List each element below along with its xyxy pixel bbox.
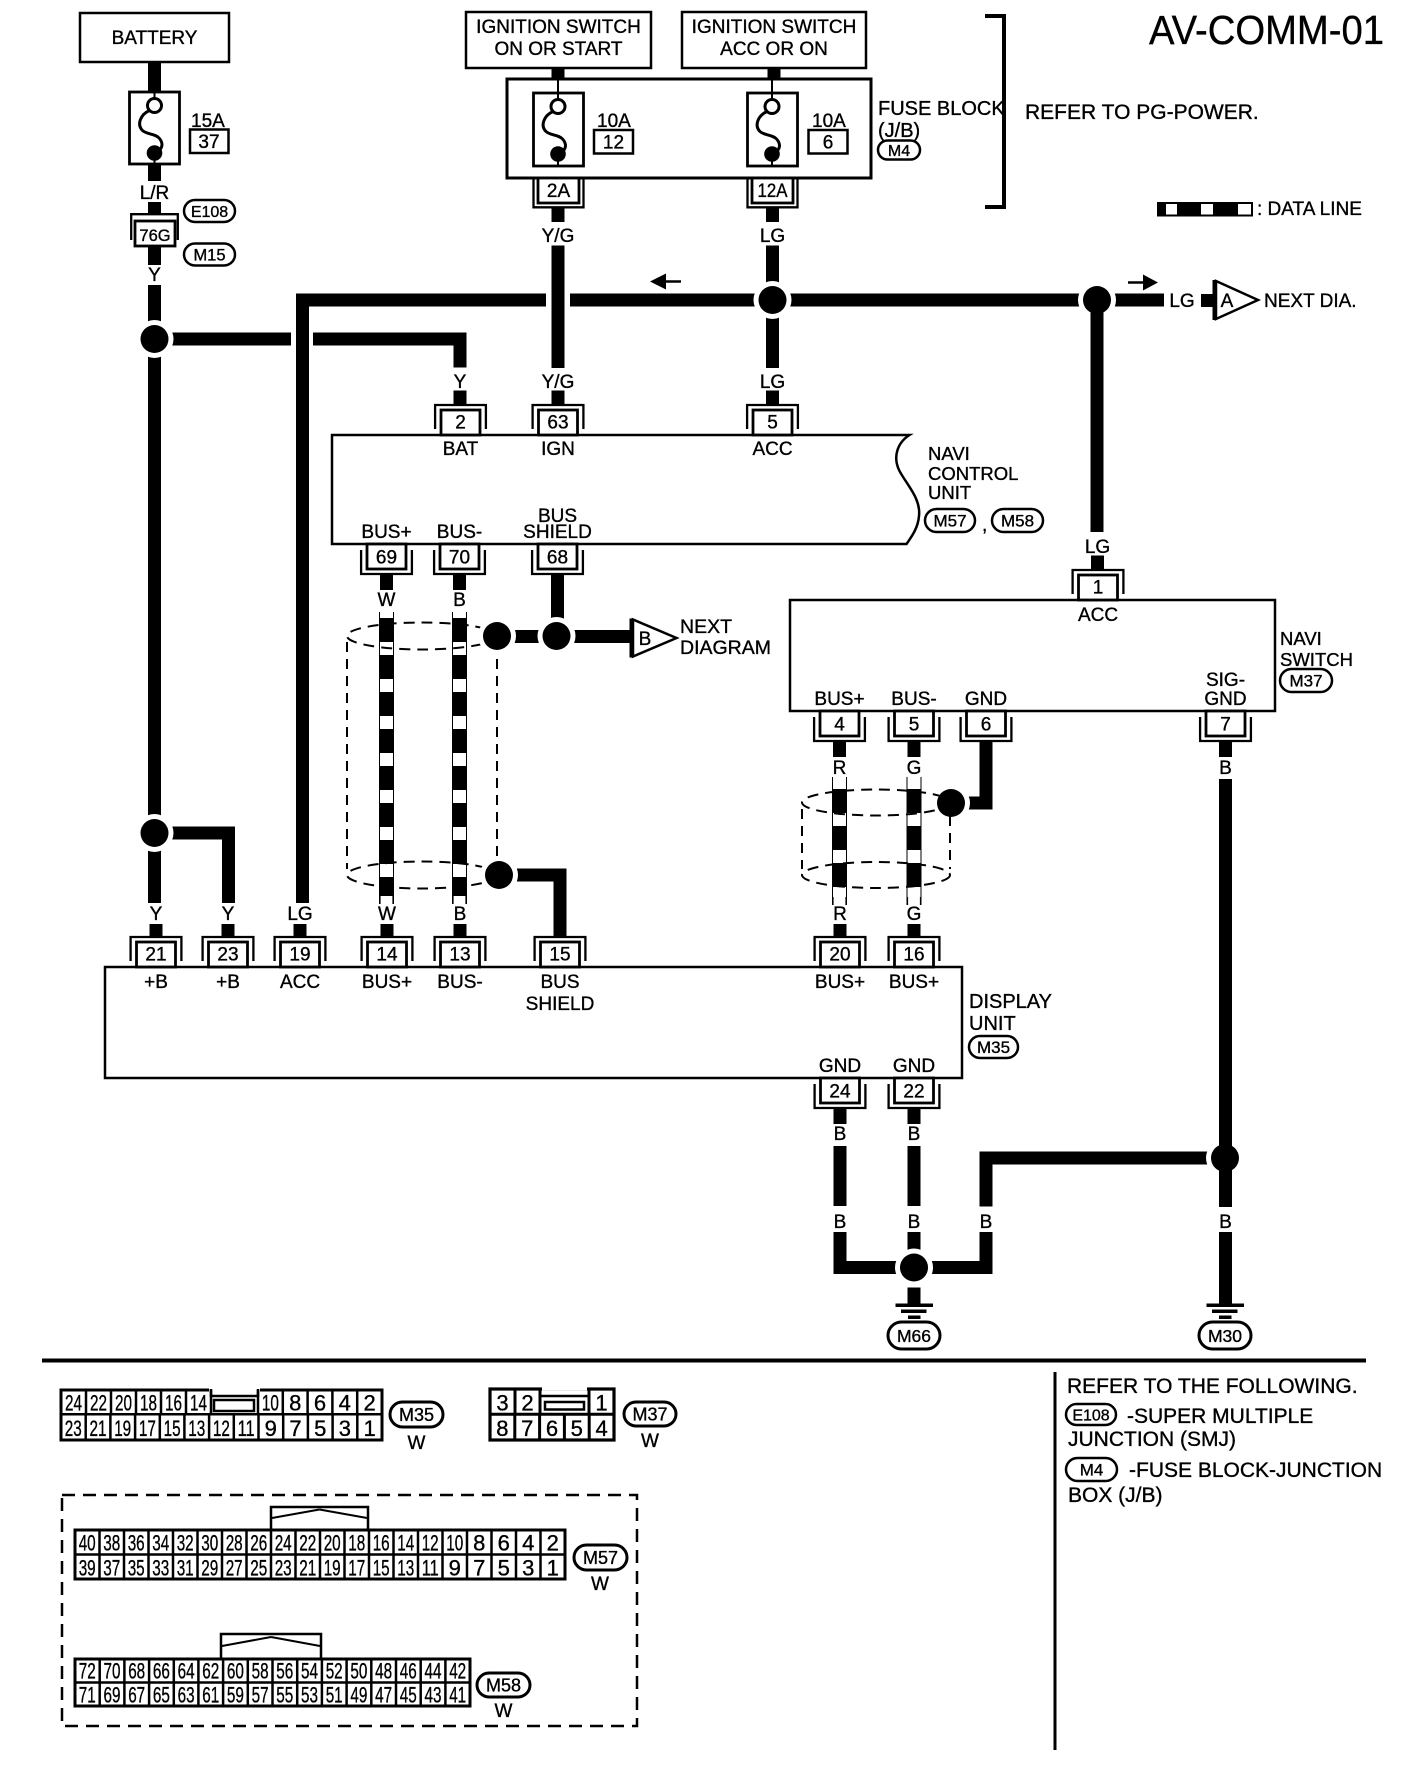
svg-text:: DATA LINE: : DATA LINE (1257, 199, 1362, 220)
wire label B pin22 lower (908, 1212, 921, 1233)
svg-text:32: 32 (177, 1531, 194, 1556)
svg-text:M4: M4 (888, 143, 910, 160)
svg-text:5: 5 (909, 715, 920, 736)
svg-text:2: 2 (455, 413, 466, 434)
svg-text:30: 30 (201, 1531, 218, 1556)
junction dot rail at 12A (754, 281, 792, 319)
connector face M57 pinout (75, 1507, 565, 1581)
svg-text:DIAGRAM: DIAGRAM (680, 637, 771, 659)
svg-text:10: 10 (262, 1391, 279, 1416)
junction dot rail right (1078, 281, 1116, 319)
svg-text:50: 50 (350, 1659, 367, 1684)
ground symbol M66 (896, 1304, 934, 1320)
connector ref M15 oval (184, 244, 235, 266)
svg-text:1: 1 (595, 1391, 607, 1416)
svg-text:M58: M58 (486, 1675, 521, 1695)
svg-text:55: 55 (276, 1683, 293, 1708)
svg-text:1: 1 (547, 1556, 559, 1581)
wire rail LG right segment (570, 294, 1164, 307)
wire LG from 12A (766, 207, 779, 222)
svg-text:B: B (908, 1212, 921, 1233)
label NAVI SWITCH (1280, 628, 1353, 670)
pin 69 BUS+ (361, 544, 412, 574)
svg-text:17: 17 (139, 1416, 156, 1441)
svg-text:69: 69 (104, 1683, 121, 1708)
svg-text:21: 21 (299, 1556, 316, 1581)
svg-text:42: 42 (449, 1659, 466, 1684)
svg-text:15: 15 (164, 1416, 181, 1441)
connector face M58 pinout (75, 1634, 470, 1708)
svg-text:22: 22 (90, 1391, 107, 1416)
svg-text:8: 8 (289, 1391, 301, 1416)
data wire G navi-to-display (907, 777, 920, 905)
svg-text:4: 4 (339, 1391, 351, 1416)
arrow left on rail (650, 274, 681, 290)
svg-text:23: 23 (65, 1416, 82, 1441)
label BUS+ pin14 (362, 972, 412, 993)
svg-text:47: 47 (375, 1683, 392, 1708)
svg-text:W: W (378, 590, 396, 611)
wire label Y at pin 2 (454, 372, 467, 393)
label SIG-GND pin7 (1204, 670, 1246, 710)
fuse number box 37 (190, 130, 229, 154)
label BAT (443, 439, 479, 460)
svg-text:24: 24 (275, 1531, 292, 1556)
svg-text:46: 46 (400, 1659, 417, 1684)
svg-text:BAT: BAT (443, 439, 479, 460)
svg-text:5: 5 (767, 413, 778, 434)
note REFER TO THE FOLLOWING (1067, 1375, 1358, 1398)
comma separator (982, 515, 987, 536)
svg-text:Y: Y (454, 372, 467, 393)
junction dot sig-gnd (1206, 1139, 1244, 1177)
svg-text:JUNCTION (SMJ): JUNCTION (SMJ) (1068, 1428, 1236, 1451)
data wire W navi-to-display (380, 612, 393, 904)
label BUS- pin13 (437, 972, 482, 993)
junction dot shield bottom (480, 856, 518, 894)
wire ignition2 to fuse block (768, 68, 781, 79)
svg-text:BUS+: BUS+ (815, 972, 865, 993)
svg-text:26: 26 (250, 1531, 267, 1556)
wire Y/G vertical (552, 246, 565, 369)
svg-text:BUS-: BUS- (437, 972, 482, 993)
svg-text:16: 16 (903, 945, 924, 966)
wire ignition1 to fuse block (552, 68, 565, 79)
svg-text:9: 9 (265, 1416, 277, 1441)
wire branch to pin 2 BAT (161, 333, 467, 368)
connector face ref M58 oval (477, 1673, 530, 1697)
svg-text:49: 49 (350, 1683, 367, 1708)
label NEXT DIAGRAM (680, 616, 771, 659)
svg-text:58: 58 (252, 1659, 269, 1684)
svg-text:19: 19 (289, 945, 310, 966)
svg-text:GND: GND (819, 1056, 861, 1077)
svg-text:67: 67 (128, 1683, 145, 1708)
svg-text:43: 43 (425, 1683, 442, 1708)
svg-text:NEXT: NEXT (680, 616, 732, 638)
svg-text:64: 64 (178, 1659, 195, 1684)
label BUS SHIELD pin68 (523, 506, 592, 543)
svg-text:22: 22 (299, 1531, 316, 1556)
svg-text:3: 3 (496, 1391, 508, 1416)
svg-text:48: 48 (375, 1659, 392, 1684)
svg-text:IGNITION SWITCH: IGNITION SWITCH (692, 17, 857, 38)
svg-text:NAVI: NAVI (928, 443, 970, 464)
svg-text:LG: LG (760, 372, 785, 393)
svg-text:M4: M4 (1080, 1461, 1104, 1480)
connector 12A (748, 178, 798, 207)
navi control unit box (332, 435, 919, 544)
wire stub display pin x914 (908, 924, 921, 937)
svg-text:REFER TO PG-POWER.: REFER TO PG-POWER. (1025, 101, 1259, 124)
svg-text:Y: Y (150, 904, 163, 925)
legend data line symbol (1158, 203, 1252, 216)
svg-text:16: 16 (165, 1391, 182, 1416)
svg-text:19: 19 (324, 1556, 341, 1581)
wire label Y (148, 265, 161, 286)
pin 5 BUS- navi switch (889, 711, 940, 741)
wire stub pin 63 (552, 391, 565, 405)
svg-text:ACC: ACC (1078, 605, 1118, 626)
off-page connector A next dia (1213, 280, 1259, 320)
svg-text:2A: 2A (547, 181, 571, 202)
wire stub pin 4 (833, 741, 846, 757)
svg-text:M37: M37 (1289, 672, 1322, 691)
svg-text:SHIELD: SHIELD (523, 522, 592, 543)
wire stub display pin x300 (294, 924, 307, 937)
svg-text:BUS-: BUS- (437, 522, 482, 543)
svg-text:ACC: ACC (280, 972, 320, 993)
pin 24 GND (815, 1078, 866, 1108)
pin 4 BUS+ navi switch (814, 711, 865, 741)
svg-text:Y/G: Y/G (542, 226, 575, 247)
label BUS SHIELD pin15 (526, 972, 595, 1015)
svg-text:20: 20 (115, 1391, 132, 1416)
svg-text:20: 20 (829, 945, 850, 966)
svg-text:24: 24 (65, 1391, 82, 1416)
svg-text:R: R (833, 904, 847, 925)
svg-text:B: B (834, 1124, 847, 1145)
wire label G upper (907, 758, 922, 779)
svg-text:2: 2 (363, 1391, 375, 1416)
svg-text:76G: 76G (139, 227, 170, 245)
svg-text:W: W (641, 1431, 659, 1452)
svg-text:M15: M15 (193, 246, 225, 264)
svg-text:12: 12 (213, 1416, 230, 1441)
wire label B at display pin x460 (454, 904, 467, 925)
wire label W upper (378, 590, 396, 611)
label BUS+ pin69 (361, 522, 411, 543)
svg-text:GND: GND (1204, 689, 1246, 710)
svg-text:M30: M30 (1208, 1326, 1242, 1346)
wire label Y at display pin x228 (222, 904, 235, 925)
svg-text:M57: M57 (583, 1548, 618, 1568)
svg-text:54: 54 (301, 1659, 318, 1684)
label FUSE BLOCK (J/B) (878, 98, 1005, 142)
svg-text:M58: M58 (1001, 512, 1034, 531)
svg-text:1: 1 (1093, 578, 1104, 599)
svg-text:6: 6 (981, 715, 992, 736)
shield sheath left pair (347, 623, 497, 889)
wire LG down to navi switch (1091, 307, 1104, 533)
pin 14 BUS+ display (362, 937, 413, 967)
label BUS- pin5 (891, 689, 936, 710)
label +B pin21 (144, 972, 168, 993)
svg-text:W: W (408, 1433, 426, 1454)
pin 20 BUS+ display (815, 937, 866, 967)
wire label B pin22 (908, 1124, 921, 1145)
wire label LG at pin 5 (760, 372, 785, 393)
wire label Y/G upper (542, 226, 575, 247)
svg-text:6: 6 (314, 1391, 326, 1416)
wire B pin22 down (908, 1146, 921, 1268)
svg-text:W: W (591, 1574, 609, 1595)
wire stub below 76G (148, 246, 161, 265)
svg-text:7: 7 (521, 1416, 533, 1441)
wire LG vertical to pin 5 (766, 246, 779, 369)
note JUNCTION (SMJ) (1068, 1428, 1236, 1451)
svg-text:25: 25 (250, 1556, 267, 1581)
wire label LG rail end (1169, 291, 1194, 312)
svg-text:27: 27 (226, 1556, 243, 1581)
label DISPLAY UNIT (969, 991, 1052, 1035)
wire stub pin 2 (454, 391, 467, 405)
svg-text:LG: LG (760, 226, 785, 247)
svg-text:B: B (1219, 758, 1232, 779)
svg-text:21: 21 (145, 945, 166, 966)
label NEXT DIA (1264, 291, 1357, 312)
dashed group box (62, 1495, 637, 1726)
wire stub to A triangle (1201, 294, 1213, 307)
wire label B pin24 lower (834, 1212, 847, 1233)
svg-text:11: 11 (238, 1416, 255, 1441)
wire GND pin6 to shield (951, 757, 993, 810)
svg-text:28: 28 (226, 1531, 243, 1556)
svg-text:BUS+: BUS+ (889, 972, 939, 993)
label GND pin24 (819, 1056, 861, 1077)
pin 70 BUS- (434, 544, 485, 574)
svg-text:5: 5 (314, 1416, 326, 1441)
svg-text:61: 61 (202, 1683, 219, 1708)
wire stub pin 7 (1219, 741, 1232, 757)
connector ref M35 oval (969, 1036, 1018, 1058)
svg-text:M57: M57 (933, 512, 966, 531)
wire battery to fuse 37 (148, 62, 161, 92)
data wire R navi-to-display (833, 777, 846, 905)
svg-text:14: 14 (376, 945, 398, 966)
svg-text:Y: Y (222, 904, 235, 925)
svg-text:13: 13 (397, 1556, 414, 1581)
wire stub pin 70 (453, 574, 466, 590)
svg-text:62: 62 (202, 1659, 219, 1684)
svg-text:70: 70 (449, 548, 470, 569)
label BUS+ pin16 (889, 972, 939, 993)
svg-text:SIG-: SIG- (1206, 670, 1245, 691)
svg-text:DISPLAY: DISPLAY (969, 991, 1052, 1013)
svg-text:45: 45 (400, 1683, 417, 1708)
junction dot ground M66 (895, 1249, 933, 1287)
pin 22 GND (889, 1078, 940, 1108)
label IGN (541, 439, 575, 460)
svg-text:35: 35 (128, 1556, 145, 1581)
svg-text:24: 24 (829, 1082, 851, 1103)
svg-text:38: 38 (103, 1531, 120, 1556)
svg-text:W: W (378, 904, 396, 925)
wire label L/R (140, 183, 170, 204)
svg-text:60: 60 (227, 1659, 244, 1684)
svg-text:16: 16 (373, 1531, 390, 1556)
pin 7 SIG-GND navi switch (1200, 711, 1251, 741)
svg-text:2: 2 (521, 1391, 533, 1416)
svg-text:41: 41 (449, 1683, 466, 1708)
pin 21 +B (131, 937, 182, 967)
svg-text:9: 9 (449, 1556, 461, 1581)
connector face ref M35 oval (390, 1402, 443, 1427)
wire shield pin 68 down (551, 574, 564, 643)
label BUS- pin70 (437, 522, 482, 543)
svg-text:13: 13 (188, 1416, 205, 1441)
label ACC pin19 (280, 972, 320, 993)
svg-text:M66: M66 (897, 1326, 931, 1346)
svg-text:23: 23 (217, 945, 238, 966)
svg-text:29: 29 (201, 1556, 218, 1581)
connector face M35 color W (408, 1433, 426, 1454)
svg-text:SWITCH: SWITCH (1280, 649, 1353, 670)
wire label B sig-gnd lower (1219, 1212, 1232, 1233)
wire stub ground M66 (908, 1288, 921, 1305)
svg-text:6: 6 (546, 1416, 558, 1441)
label ACC (752, 439, 792, 460)
svg-text:19: 19 (114, 1416, 131, 1441)
svg-text:BUS+: BUS+ (361, 522, 411, 543)
connector face ref M37 oval (624, 1402, 676, 1426)
svg-text:15: 15 (373, 1556, 390, 1581)
svg-text:63: 63 (178, 1683, 195, 1708)
svg-text:M37: M37 (632, 1404, 667, 1424)
wire shield dots link (497, 630, 557, 643)
divider line (1054, 1372, 1057, 1750)
wire stub display pin x156 (150, 924, 163, 937)
wire label LG at navi switch (1085, 537, 1110, 558)
junction dot shield pin68 (538, 617, 576, 655)
svg-text:BUS: BUS (540, 972, 579, 993)
svg-text:36: 36 (128, 1531, 145, 1556)
connector ref M57 oval (925, 509, 975, 532)
svg-text:68: 68 (547, 548, 568, 569)
svg-text:7: 7 (289, 1416, 301, 1441)
legend label DATA LINE (1257, 199, 1362, 220)
svg-text:18: 18 (140, 1391, 157, 1416)
svg-text:52: 52 (326, 1659, 343, 1684)
wire stub pin 5 (766, 391, 779, 405)
connector face M58 color W (495, 1701, 513, 1722)
svg-text:68: 68 (128, 1659, 145, 1684)
svg-text:37: 37 (103, 1556, 120, 1581)
label NAVI CONTROL UNIT (928, 443, 1018, 503)
svg-text:14: 14 (190, 1391, 207, 1416)
svg-text:6: 6 (498, 1531, 510, 1556)
ground ref M66 oval (888, 1322, 940, 1349)
fuse number box 12 (594, 130, 633, 154)
wire stub pin 6 (980, 741, 993, 757)
navi switch box (790, 600, 1275, 711)
wire label LG upper (760, 226, 785, 247)
wire Y/G from 2A (552, 207, 565, 222)
svg-text:4: 4 (595, 1416, 607, 1441)
ignition switch acc-or-on box (682, 12, 866, 68)
svg-text:4: 4 (834, 715, 845, 736)
pin 19 ACC display (275, 937, 326, 967)
wire Y battery vertical run (148, 285, 161, 903)
pin 16 BUS+ display (889, 937, 940, 967)
svg-text:BOX (J/B): BOX (J/B) (1068, 1484, 1163, 1507)
off-page connector B next diagram (630, 619, 677, 658)
svg-text:B: B (1219, 1212, 1232, 1233)
label ACC pin1 (1078, 605, 1118, 626)
wire label B right branch (980, 1212, 993, 1233)
svg-text:12: 12 (603, 133, 624, 154)
svg-text:56: 56 (276, 1659, 293, 1684)
svg-text:G: G (907, 758, 922, 779)
svg-text:FUSE BLOCK: FUSE BLOCK (878, 98, 1005, 120)
title AV-COMM-01 (1149, 7, 1384, 53)
svg-text:65: 65 (153, 1683, 170, 1708)
label BUS+ pin20 (815, 972, 865, 993)
pin 1 ACC navi switch (1073, 570, 1124, 600)
pin 15 BUS SHIELD display (535, 937, 586, 967)
svg-text:B: B (453, 590, 466, 611)
svg-text:13: 13 (449, 945, 470, 966)
SMJ connector 76G (131, 214, 178, 246)
svg-text:BUS-: BUS- (891, 689, 936, 710)
label GND pin6 (965, 689, 1007, 710)
svg-text:LG: LG (1085, 537, 1110, 558)
svg-text:A: A (1221, 291, 1234, 312)
label +B pin23 (216, 972, 240, 993)
wire label W at display pin x387 (378, 904, 396, 925)
wire stub display pin x840 (834, 924, 847, 937)
svg-text:ACC OR ON: ACC OR ON (720, 39, 828, 60)
wire fuse to 76G (148, 164, 161, 214)
svg-text:IGN: IGN (541, 439, 575, 460)
wire stub display pin x228 (222, 924, 235, 937)
svg-text:B: B (908, 1124, 921, 1145)
wire stub display pin x460 (454, 924, 467, 937)
svg-text:53: 53 (301, 1683, 318, 1708)
svg-text:G: G (907, 904, 922, 925)
junction dot shield left (478, 617, 516, 655)
wire label B sig-gnd (1219, 758, 1232, 779)
svg-text:2: 2 (547, 1531, 559, 1556)
fuse block J/B box (507, 79, 871, 178)
connector face ref M57 oval (574, 1545, 627, 1570)
wire B sig-gnd long (1219, 779, 1232, 1304)
pin 23 +B (203, 937, 254, 967)
svg-text:23: 23 (275, 1556, 292, 1581)
svg-text:22: 22 (903, 1082, 924, 1103)
note SUPER MULTIPLE (1127, 1405, 1313, 1428)
wire to B triangle (556, 630, 630, 643)
svg-text:44: 44 (425, 1659, 442, 1684)
pin 2 BAT (435, 405, 486, 435)
svg-text:UNIT: UNIT (969, 1013, 1016, 1035)
svg-text:37: 37 (198, 132, 219, 153)
svg-text:6: 6 (823, 133, 834, 154)
svg-text:71: 71 (79, 1683, 96, 1708)
wire shield bottom to pin 15 (499, 869, 567, 938)
shield sheath right pair (802, 790, 950, 889)
svg-text:M35: M35 (977, 1038, 1010, 1057)
